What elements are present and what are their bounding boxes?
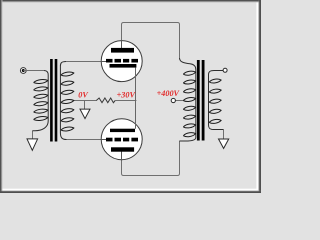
svg-text:+30V: +30V — [117, 91, 137, 100]
svg-text:0V: 0V — [78, 90, 89, 99]
svg-text:+400V: +400V — [157, 89, 181, 98]
